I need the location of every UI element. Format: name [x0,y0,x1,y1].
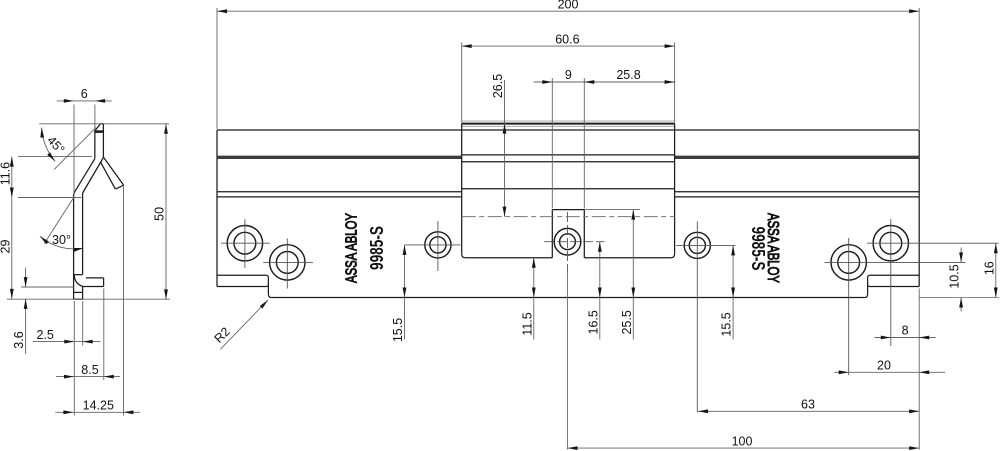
hole D right lower screw hole [831,238,866,375]
dimension 9 notch width [551,78,553,209]
svg-text:25.5: 25.5 [620,310,634,334]
svg-text:11.5: 11.5 [520,312,534,335]
dimension 15.5 right [732,245,734,339]
dimension 14.25 [55,411,140,413]
dimension 29 [11,198,13,299]
svg-text:8: 8 [902,324,909,338]
hole F extension down to 100 dim [567,272,569,450]
dimension 45deg arc [42,128,55,162]
extension line: x=74.3 below profile [73,301,75,416]
dimension 3.6 [25,268,27,288]
svg-text:16.5: 16.5 [586,310,600,334]
svg-text:30°: 30° [52,233,71,247]
svg-text:20: 20 [877,359,891,373]
svg-text:60.6: 60.6 [555,32,579,46]
svg-text:15.5: 15.5 [391,318,405,342]
dimension 60.6 block width [461,43,463,123]
dimension 100 [568,447,920,449]
dimension 16.5 [599,242,601,340]
lower fold lines right section [675,191,920,193]
extension line: horizontal y=287 [21,286,73,288]
hole B left lower screw hole [263,238,313,288]
svg-text:25.8: 25.8 [616,68,640,82]
svg-text:29: 29 [0,240,12,254]
dimension 10.5 outside arrows [960,248,962,263]
extension line: vertical x=94.9 for 6 dim [94,105,96,131]
centerline hole C extended right for 16 dim [867,242,999,244]
svg-text:9985-S: 9985-S [367,226,387,270]
hole C right outer screw hole [873,219,908,346]
right edge extension down to 100 dim [918,289,920,450]
dimension 30deg arc [40,236,84,249]
extension line: horizontal top reference [39,123,169,125]
dimension 25.8 [665,80,675,84]
profile view: cross-section outline of strike plate [74,124,124,300]
svg-text:16: 16 [982,261,996,275]
svg-text:50: 50 [153,207,167,221]
svg-text:3.6: 3.6 [12,331,26,348]
extension line: 30deg slant extended [44,197,74,243]
hole A left outer screw hole [221,219,270,268]
dimension 8.5 [56,376,120,378]
hidden dashed line across block y=216.6 [462,216,675,218]
svg-text:200: 200 [558,0,579,11]
extension line: 50 dim vertical x=166 [165,124,167,300]
centerline hole G to right 15.5 dim [676,244,735,246]
svg-text:9: 9 [565,68,572,82]
dimension 26.5 [504,80,506,217]
R2 leader to rounded step corner [220,300,268,349]
dimension 25.5 [584,209,640,211]
svg-text:ASSA ABLOY: ASSA ABLOY [344,213,361,283]
extension line: horizontal y=298.9 [7,298,170,300]
dimension 50 [164,124,168,134]
svg-text:2.5: 2.5 [37,328,54,342]
centerline hole D extended right for 10.5 dim [825,261,966,263]
bottom edge extension right for dims [919,297,999,299]
extension line: 45deg bevel extended [54,128,96,170]
svg-text:26.5: 26.5 [491,74,505,98]
extension line: x=82.7 below profile [82,301,84,346]
plate fold line thick left section [217,156,462,159]
dimension 2.5 [33,341,101,343]
hole G mid-right hole [684,222,710,413]
extension line: horizontal y=197.5 [18,197,82,199]
extension line: x=123.5 from lip tip [123,187,125,416]
svg-text:14.25: 14.25 [83,399,114,413]
extension line: vertical x=74 for 6 dim [73,105,75,195]
right foot tab with step [865,275,920,297]
dimension 200 overall [216,8,218,129]
hole F center hole [544,212,605,272]
latch notch in block [552,210,584,258]
dimension 63 [698,410,919,412]
svg-text:9985-S: 9985-S [748,227,768,271]
dimension 11.6 [11,157,13,198]
dimension 11.5 [533,258,535,340]
hole E mid-left hole [425,221,451,271]
svg-text:10.5: 10.5 [948,264,962,288]
centerline hole E to 15.5 dim [405,244,461,246]
dimension 8 outside arrows [875,337,936,339]
svg-text:15.5: 15.5 [720,312,734,336]
svg-text:6: 6 [81,87,88,101]
extension line: x=103.8 below foot [103,289,105,381]
dimension 20 outside arrows [834,371,945,373]
dimension 15.5 left [404,245,406,340]
plate fold line thick right section [675,156,920,159]
svg-text:11.6: 11.6 [0,162,12,185]
dimension 16 [995,243,997,297]
extension line: horizontal y=156.6 [18,156,92,158]
svg-text:63: 63 [801,398,815,412]
svg-text:8.5: 8.5 [81,363,98,377]
left foot tab with step [217,275,271,297]
center raised block [462,121,675,258]
lower fold lines left section [217,191,462,193]
dimension 6 [57,100,112,102]
svg-text:100: 100 [732,434,753,448]
front view: main plate outline [217,130,919,298]
